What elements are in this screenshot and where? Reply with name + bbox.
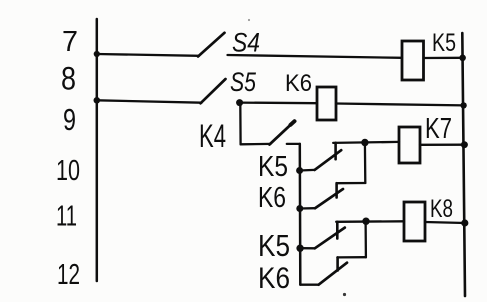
svg-text:8: 8 [61,61,76,97]
svg-text:K4: K4 [199,118,226,154]
svg-text:11: 11 [56,201,77,233]
svg-text:9: 9 [63,102,76,137]
svg-text:K6: K6 [258,182,286,214]
svg-text:12: 12 [57,259,80,291]
svg-text:K7: K7 [425,113,452,145]
svg-text:10: 10 [56,155,80,187]
svg-text:K5: K5 [258,228,290,263]
svg-text:7: 7 [62,26,78,58]
svg-text:K5: K5 [258,151,288,183]
svg-text:S5: S5 [230,67,257,97]
svg-text:K5: K5 [432,29,456,57]
svg-text:K6: K6 [258,262,290,295]
svg-text:S4: S4 [232,28,260,58]
svg-text:K8: K8 [430,195,453,223]
svg-text:K6: K6 [285,70,312,97]
